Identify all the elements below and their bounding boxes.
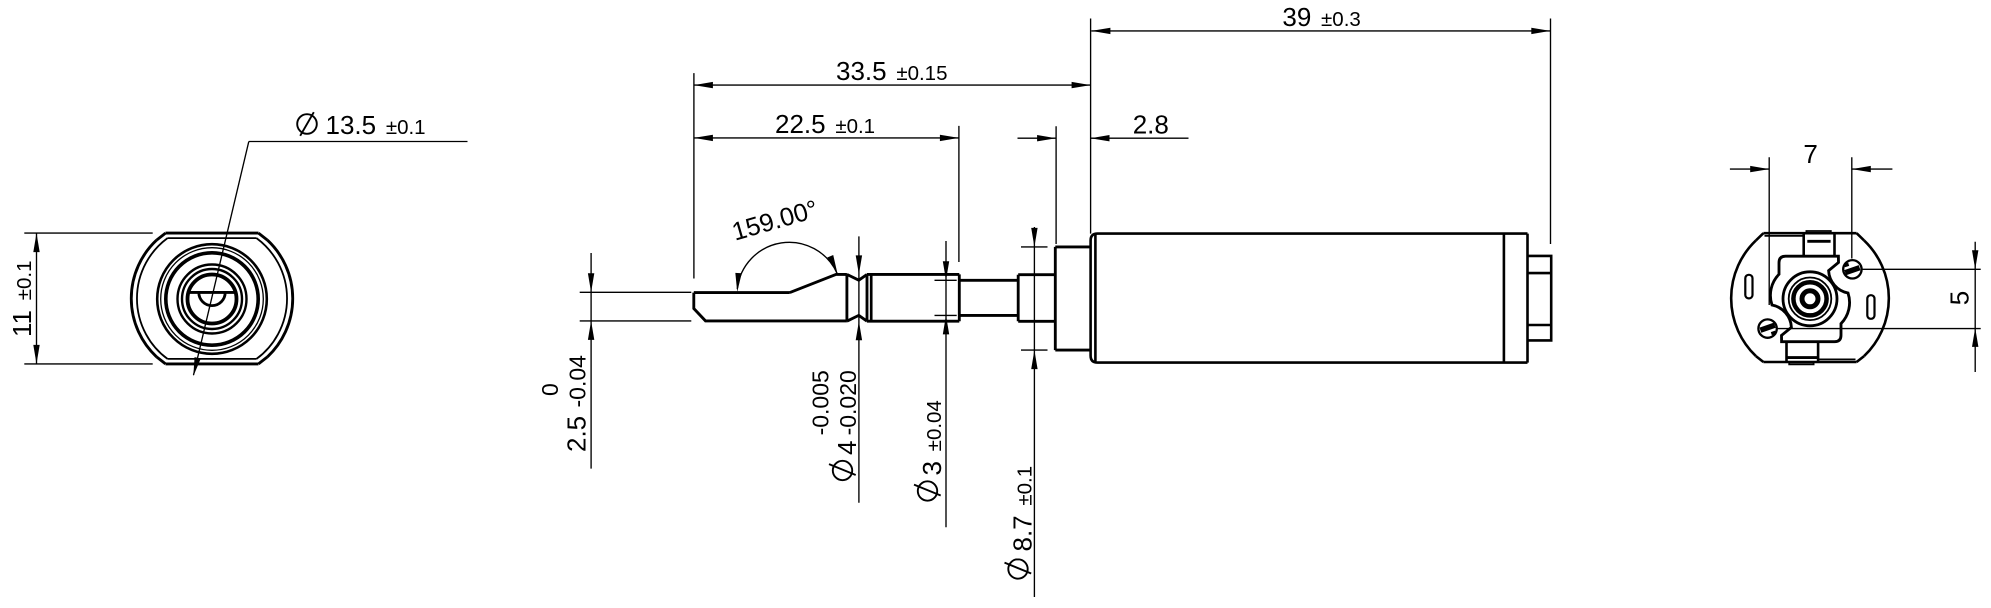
svg-text:5: 5 (1945, 291, 1975, 305)
svg-text:8.7 ±0.1: 8.7 ±0.1 (1008, 466, 1038, 552)
svg-text:22.5 ±0.1: 22.5 ±0.1 (775, 109, 875, 139)
svg-text:2.5: 2.5 (562, 416, 592, 452)
svg-text:33.5 ±0.15: 33.5 ±0.15 (836, 56, 947, 86)
svg-text:0: 0 (537, 383, 563, 396)
svg-text:159.00°: 159.00° (729, 195, 821, 246)
svg-text:-0.020: -0.020 (835, 370, 861, 435)
svg-text:-0.04: -0.04 (565, 355, 591, 408)
svg-text:3 ±0.04: 3 ±0.04 (917, 400, 947, 475)
svg-text:2.8: 2.8 (1133, 110, 1169, 140)
svg-text:7: 7 (1803, 139, 1817, 169)
svg-text:11 ±0.1: 11 ±0.1 (7, 261, 37, 337)
svg-text:-0.005: -0.005 (808, 370, 834, 435)
svg-text:39 ±0.3: 39 ±0.3 (1282, 2, 1360, 32)
svg-text:4: 4 (832, 441, 862, 455)
svg-text:13.5 ±0.1: 13.5 ±0.1 (326, 110, 426, 140)
